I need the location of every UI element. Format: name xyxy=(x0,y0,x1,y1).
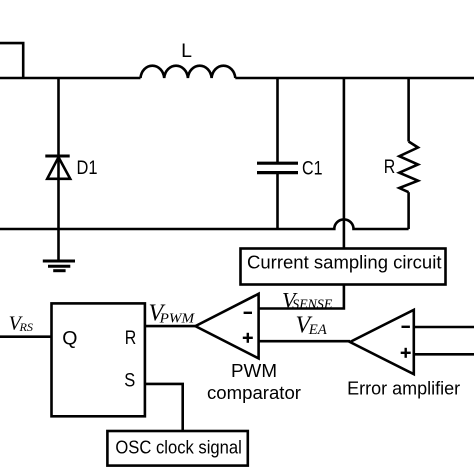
wire: top rail right segment xyxy=(235,77,474,80)
op-amp U2 error amplifier xyxy=(350,310,414,374)
svg-text:R: R xyxy=(125,327,137,349)
RS flip-flop U3 box xyxy=(52,303,145,416)
PWM comparator minus sign xyxy=(244,312,252,314)
resistor R top lead xyxy=(407,78,410,142)
wire: error amplifier inverting input xyxy=(414,326,474,329)
svg-text:D1: D1 xyxy=(77,158,98,179)
wire: bottom rail with hop over sense line xyxy=(0,219,409,229)
svg-text:Error amplifier: Error amplifier xyxy=(347,378,460,399)
PWM comparator plus sign xyxy=(243,337,253,339)
wire: S input from OSC clock box xyxy=(145,384,183,431)
switch box Q (partially cut at left edge) xyxy=(0,43,23,78)
ground xyxy=(43,260,75,263)
inductor L xyxy=(141,66,236,78)
svg-text:Current sampling circuit: Current sampling circuit xyxy=(247,252,442,273)
capacitor C1 top lead xyxy=(276,78,279,163)
wire: top rail left segment xyxy=(0,77,141,80)
svg-text:C1: C1 xyxy=(302,157,323,179)
diode D1 triangle xyxy=(47,157,70,179)
svg-text:EA: EA xyxy=(308,322,327,338)
svg-text:SENSE: SENSE xyxy=(292,297,332,312)
svg-text:R: R xyxy=(384,157,396,178)
svg-text:S: S xyxy=(124,369,135,391)
wire: V_RS input to flip-flop xyxy=(0,335,52,338)
error amplifier plus sign xyxy=(401,352,411,354)
svg-text:RS: RS xyxy=(18,320,33,334)
svg-text:L: L xyxy=(181,40,192,62)
wire: V_SENSE from sampling box to PWM comparator minus input xyxy=(259,285,344,309)
current sampling circuit box xyxy=(241,249,446,285)
svg-text:comparator: comparator xyxy=(207,382,301,403)
svg-text:Q: Q xyxy=(62,328,77,350)
OSC clock signal box xyxy=(107,431,247,466)
wire: current sense branch (top rail to sampling box) xyxy=(343,78,346,249)
resistor R bottom lead xyxy=(407,192,410,229)
wire: error amplifier non-inverting input xyxy=(414,353,474,356)
svg-text:PWM: PWM xyxy=(159,312,196,327)
resistor R zigzag xyxy=(399,142,418,193)
svg-text:OSC clock signal: OSC clock signal xyxy=(115,437,241,458)
wire: D1 branch from top rail xyxy=(57,78,60,261)
error amplifier minus sign xyxy=(402,326,410,328)
wire: V_PWM from flip-flop R to comparator output xyxy=(145,325,196,328)
capacitor C1 bottom lead xyxy=(276,173,279,229)
wire: V_EA from error amplifier to PWM comparator plus input xyxy=(259,340,350,343)
op-amp U1 PWM comparator xyxy=(195,294,258,359)
svg-text:PWM: PWM xyxy=(231,360,277,381)
diode D1 cathode bar xyxy=(45,155,69,158)
capacitor C1 plates xyxy=(257,162,298,165)
